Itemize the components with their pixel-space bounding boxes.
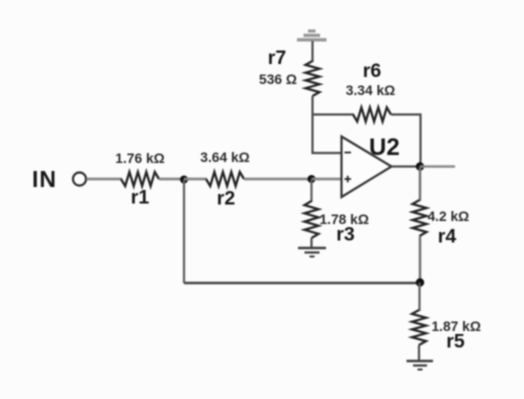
wire: r5 to ground <box>418 345 420 361</box>
resistor r6 <box>353 108 391 122</box>
svg-text:4.2 kΩ: 4.2 kΩ <box>428 209 470 224</box>
wire: node C down to r3 <box>310 179 312 202</box>
resistor r2 <box>206 172 244 186</box>
ground symbol below r3 <box>298 248 326 257</box>
ground symbol below r5 <box>407 361 434 370</box>
wire: output stub to the right <box>420 165 455 168</box>
op-amp plus input sign <box>345 176 352 183</box>
wire: node A down to bottom rail <box>183 180 185 284</box>
op-amp minus input sign <box>345 152 352 154</box>
input terminal circle <box>73 173 86 186</box>
wire: r7 to feedback node down to minus stub <box>313 96 343 153</box>
op-amp U2 triangle <box>342 137 392 198</box>
wire: terminal to r1 <box>87 178 123 181</box>
output node junction dot <box>416 162 424 170</box>
resistor r4 <box>413 200 427 236</box>
wire: output node down to r4 <box>419 167 421 202</box>
wire: r4 down to node B <box>419 236 421 283</box>
resistor r1 <box>121 172 159 186</box>
svg-text:r7: r7 <box>268 47 286 69</box>
svg-text:r1: r1 <box>131 187 150 209</box>
svg-text:1.76 kΩ: 1.76 kΩ <box>115 151 164 166</box>
wire: r1 to node A <box>159 178 184 181</box>
svg-text:r2: r2 <box>217 188 236 210</box>
svg-text:r5: r5 <box>446 331 465 353</box>
svg-text:r3: r3 <box>336 224 355 246</box>
wire: rail to r7 <box>311 41 313 62</box>
power rail symbol (inverted ground, gray) <box>297 31 327 40</box>
wire: r2 to node C <box>244 178 312 181</box>
svg-text:IN: IN <box>32 166 57 192</box>
wire: node B down to r5 <box>418 283 420 312</box>
svg-text:536 Ω: 536 Ω <box>259 72 297 87</box>
wire: r3 to ground <box>310 238 312 248</box>
wire: node A to r2 <box>184 178 207 181</box>
svg-text:3.34 kΩ: 3.34 kΩ <box>346 83 395 98</box>
resistor r3 <box>305 201 319 238</box>
svg-text:U2: U2 <box>369 134 400 161</box>
svg-text:r4: r4 <box>438 226 457 248</box>
wire: op-amp output to node B <box>392 165 421 167</box>
resistor r7 <box>306 61 320 96</box>
svg-text:r6: r6 <box>363 60 382 82</box>
svg-text:3.64 kΩ: 3.64 kΩ <box>200 150 249 165</box>
wire: r6 to output node <box>391 115 421 167</box>
node B junction dot <box>416 278 424 286</box>
wire: node C to op-amp plus input <box>312 178 343 181</box>
wire: bottom rail to node B <box>184 282 420 284</box>
resistor r5 <box>412 310 426 345</box>
node C junction dot <box>308 175 316 183</box>
node A junction dot <box>180 176 188 184</box>
wire: feedback top run to r6 <box>313 113 355 115</box>
